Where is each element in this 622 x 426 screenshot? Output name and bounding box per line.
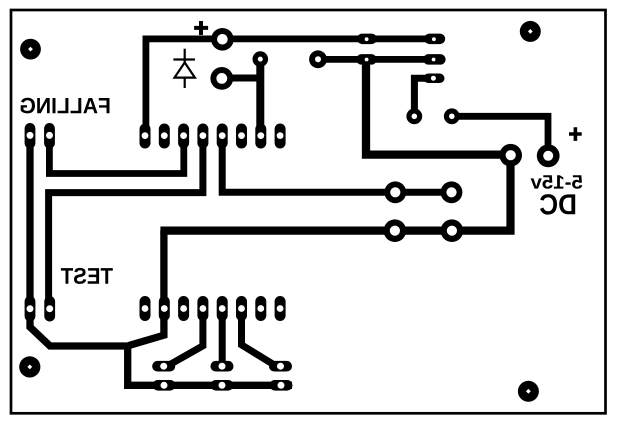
wire: ground branch from IC2 pin2 down to junction (129, 231, 164, 346)
IC1 pads row (pins 1-8) (140, 124, 286, 149)
mounting hole bottom-left (19, 356, 40, 377)
label TEST (mirrored) (61, 268, 113, 284)
pad R3 b (441, 219, 464, 242)
wire: round pad right to DC minus pad (452, 116, 548, 156)
mid oval pad 1 (152, 361, 175, 372)
label DC (mirrored) (540, 194, 575, 215)
mounting hole bottom-right (518, 381, 539, 402)
pad DC plus (499, 144, 522, 167)
wire: thick power trace down and right to DC pad (366, 59, 511, 154)
wire: left pad2 to IC1 pin3 (49, 140, 183, 174)
lower-left connector pad 2 (44, 296, 55, 322)
plus sign near DC pad (569, 127, 582, 141)
wire: V+ pad left to IC1 pin1 (146, 39, 222, 130)
pad left end of rail 2 (309, 50, 327, 68)
label FALLING (mirrored) (21, 98, 110, 114)
oval pad rail2 a (356, 54, 377, 65)
mounting hole top-right (520, 21, 541, 42)
pad R2 a (384, 181, 406, 203)
wire: left column pad1 to lower-left pad1 (26, 140, 33, 308)
wire: IC2 pin6 down diagonal to mid pill3 (242, 310, 274, 365)
oval pad rail1 a (357, 34, 377, 45)
oval pad rail2 b (423, 54, 446, 65)
pad V+ (C1 positive) (211, 28, 234, 51)
pad R2 b (441, 181, 463, 203)
bottom oval pad 2 (211, 380, 234, 391)
wire: IC1 pin5 down and right through mid pads (222, 140, 451, 192)
wire: second top rail (318, 56, 434, 63)
wire: small pad down to IC1 pin7 (256, 59, 264, 135)
IC2 pads row (pins 1-8) (140, 296, 286, 321)
lower-left connector pad 1 (TEST) (25, 296, 36, 322)
wire: V+ pad right along top to pad (222, 35, 435, 42)
mid oval pad 2 (211, 361, 234, 372)
pad small node (252, 51, 268, 67)
wire: IC1 pin4 left and down to lower-left pad2 (49, 140, 203, 305)
pad R node a (406, 108, 422, 124)
wire: thick mid rail to DC plus pad (160, 155, 510, 230)
bottom oval pad 3 (270, 380, 293, 391)
wire: pad to vertical junction (222, 75, 260, 82)
oval pad elbow (424, 74, 445, 84)
mid oval pad 3 (269, 361, 292, 372)
wire: IC2 pin5 down to mid pill2 (219, 310, 226, 366)
wire: lower-left pad1 diagonal to bottom rail (30, 308, 292, 385)
plus sign near C1 (194, 21, 208, 35)
left connector pad 2 (44, 123, 55, 149)
pad R node b (444, 108, 460, 124)
pad R3 a (384, 219, 407, 242)
oval pad rail1 b (424, 34, 445, 45)
diode D1 symbol (173, 49, 195, 88)
mounting hole top-left (20, 39, 41, 60)
bottom oval pad 1 (153, 380, 176, 391)
label 5-15v (mirrored) (531, 175, 583, 189)
pad C1 negative (210, 67, 233, 90)
wire: IC2 pin4 down diagonal to mid pill1 (170, 310, 203, 365)
wire: elbow from oval pad down to round pad (414, 78, 434, 116)
pad DC minus (537, 144, 560, 167)
left connector pad 1 (FALLING input) (25, 123, 36, 149)
